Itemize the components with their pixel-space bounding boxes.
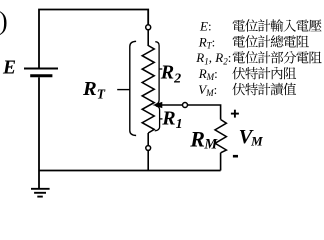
svg-text:R2: R2 — [160, 61, 181, 86]
legend text line 3 — [233, 51, 322, 63]
label + polarity — [231, 110, 239, 118]
brace RT (left of element) — [117, 41, 136, 135]
potentiometer RT resistive element (R2 over R1) — [142, 46, 154, 134]
svg-text:RT:: RT: — [198, 34, 216, 50]
bracket R2 (upper section) — [155, 42, 162, 105]
svg-text:R1: R1 — [161, 108, 182, 133]
node B (potentiometer bottom terminal) — [146, 146, 151, 151]
legend text line 1 — [233, 19, 322, 32]
svg-text:E: E — [2, 57, 16, 78]
svg-text:RM: RM — [189, 126, 218, 152]
node C (wiper tap terminal) — [183, 103, 188, 108]
ground — [31, 189, 50, 197]
legend text line 5 — [232, 83, 296, 96]
wire RM bottom to bottom rail — [220, 153, 222, 171]
wiper wire right and down to RM — [160, 105, 221, 120]
wire top (battery + up and right to potentiometer top) — [39, 10, 148, 69]
wire battery - down to ground — [38, 77, 40, 188]
wiper arrow — [153, 102, 162, 107]
wire node A to RT top — [147, 30, 149, 46]
svg-text:): ) — [0, 6, 8, 35]
wire RT bottom to node B — [147, 133, 149, 146]
label - polarity — [233, 155, 238, 158]
svg-text:E:: E: — [199, 18, 212, 33]
wire node B to bottom rail — [147, 150, 149, 170]
svg-text:VM: VM — [239, 126, 263, 149]
svg-text:VM:: VM: — [198, 82, 217, 98]
svg-text:RT: RT — [82, 78, 106, 102]
bracket R1 (lower section) — [155, 106, 163, 131]
svg-text:R1, R2:: R1, R2: — [195, 50, 231, 66]
legend text line 2 — [233, 35, 309, 47]
node A (potentiometer top terminal) — [146, 25, 151, 30]
legend text line 4 — [232, 67, 296, 80]
resistor RM — [215, 120, 226, 153]
svg-text:RM:: RM: — [198, 66, 218, 82]
battery E plates — [24, 69, 58, 76]
wire bottom rail — [39, 170, 221, 172]
